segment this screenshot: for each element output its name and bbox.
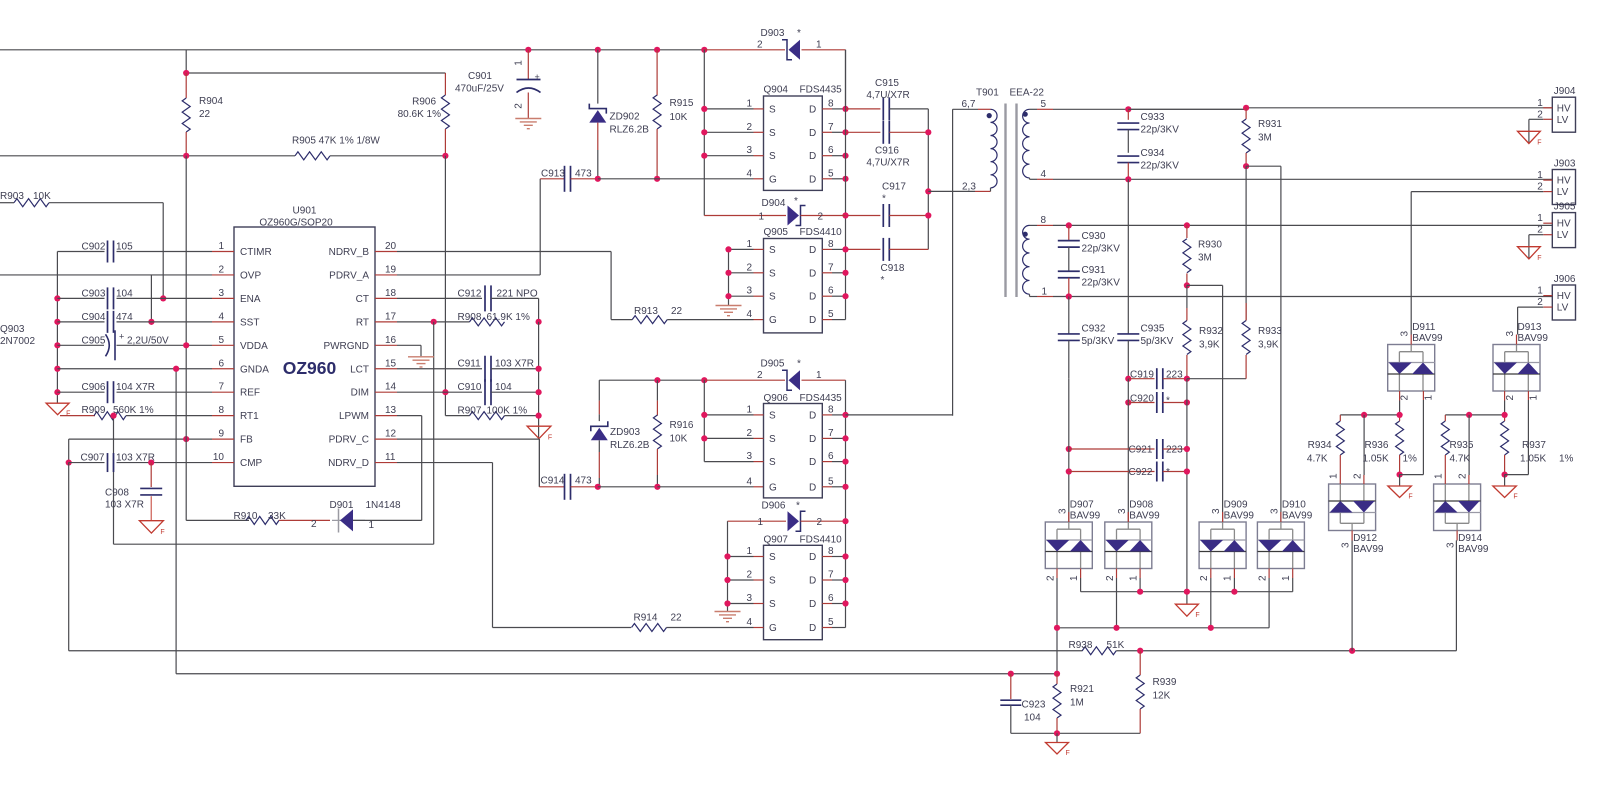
diode D903 (704, 49, 785, 51)
svg-text:10K: 10K (33, 191, 51, 202)
wire link to BAV pin2 (1363, 415, 1365, 475)
wire VDDA drop to DIM/R907 (444, 156, 446, 416)
svg-text:1: 1 (1423, 395, 1434, 401)
svg-text:+: + (535, 72, 540, 82)
svg-text:S: S (769, 104, 776, 115)
diode D908 BAV99 (1105, 522, 1152, 569)
wire VCC bus Q906 (703, 380, 705, 461)
svg-text:R904: R904 (199, 96, 223, 107)
node R930 bottom (1184, 282, 1190, 288)
svg-text:BAV99: BAV99 (1224, 511, 1255, 522)
svg-text:51K: 51K (1107, 640, 1125, 651)
wire switch-node bus B (845, 380, 847, 627)
capacitor C912 (484, 285, 486, 311)
svg-text:D912: D912 (1353, 533, 1377, 544)
ground F J904 (1518, 131, 1541, 143)
wire J903 LV link (1411, 191, 1543, 193)
node D909-2 (1208, 625, 1214, 631)
svg-text:D905: D905 (761, 359, 785, 370)
svg-text:BAV99: BAV99 (1518, 333, 1549, 344)
capacitor C920 (1128, 402, 1154, 404)
U901 pin 7 REF (212, 391, 234, 393)
svg-text:D911: D911 (1412, 322, 1436, 333)
node R915 bottom (654, 176, 660, 182)
svg-text:NDRV_B: NDRV_B (329, 247, 370, 258)
node C921 right (1184, 446, 1190, 452)
diode D906 (728, 520, 787, 522)
svg-text:2: 2 (818, 212, 824, 223)
wire primary feed (952, 109, 954, 415)
svg-text:ZD903: ZD903 (610, 427, 640, 438)
svg-text:33K: 33K (268, 511, 286, 522)
D909 pin 2 stub (1210, 569, 1212, 579)
svg-text:R908: R908 (458, 312, 482, 323)
svg-text:C911: C911 (458, 359, 482, 370)
svg-text:R909: R909 (82, 405, 106, 416)
svg-text:4: 4 (746, 476, 752, 487)
diode D904 (704, 215, 786, 217)
svg-text:R907: R907 (458, 406, 482, 417)
wire OVP to SST link (150, 275, 152, 322)
svg-text:C923: C923 (1022, 700, 1046, 711)
capacitor C921 (1069, 448, 1155, 450)
svg-text:D: D (809, 599, 816, 610)
svg-text:2: 2 (1199, 575, 1210, 581)
svg-text:16: 16 (385, 335, 397, 346)
svg-text:1: 1 (746, 546, 752, 557)
svg-text:G: G (769, 315, 777, 326)
capacitor C906 (57, 391, 104, 393)
svg-text:GNDA: GNDA (240, 364, 269, 375)
svg-text:G: G (769, 482, 777, 493)
U901 pin 20 NDRV_B (375, 251, 397, 253)
svg-text:5p/3KV: 5p/3KV (1141, 336, 1174, 347)
transistor Q907 FDS4410 box (764, 545, 823, 639)
wire switch node to primary (846, 414, 953, 416)
svg-text:7: 7 (828, 428, 834, 439)
svg-text:C930: C930 (1082, 231, 1106, 242)
svg-text:C912: C912 (458, 288, 482, 299)
node C901 tap (525, 47, 531, 53)
svg-text:4: 4 (218, 311, 224, 322)
wire PDRV_C net (397, 438, 539, 440)
connector J905 box (1552, 213, 1575, 248)
svg-text:J905: J905 (1554, 202, 1576, 213)
node R908/bus (536, 319, 542, 325)
svg-text:D: D (809, 174, 816, 185)
svg-text:F: F (1195, 612, 1199, 619)
svg-text:2: 2 (746, 428, 752, 439)
svg-text:F: F (160, 529, 164, 536)
diode D910 BAV99 (1257, 522, 1304, 569)
svg-text:R915: R915 (670, 98, 694, 109)
svg-text:4: 4 (1041, 169, 1047, 180)
U901 pin 5 VDDA (212, 344, 234, 346)
svg-text:1: 1 (1537, 98, 1543, 109)
diode D912 BAV99 (1329, 484, 1376, 531)
capacitor C917 (846, 215, 881, 217)
wire right sense bus down (1186, 379, 1188, 605)
node C934 bottom (1125, 176, 1131, 182)
Q907 pin 6 (822, 603, 832, 605)
svg-text:D: D (809, 128, 816, 139)
D907 pin 1 stub (1080, 569, 1082, 579)
ground F sense (1175, 604, 1198, 616)
svg-text:11: 11 (385, 452, 396, 463)
svg-text:2: 2 (1045, 575, 1056, 581)
svg-text:5: 5 (828, 476, 834, 487)
svg-text:223: 223 (1166, 370, 1183, 381)
wire R914 row / NDRV_D (493, 627, 632, 629)
svg-text:LPWM: LPWM (339, 411, 369, 422)
node R939 top (1137, 648, 1143, 654)
node REF/C906 (54, 389, 60, 395)
wire J905 LV to ground (1529, 234, 1543, 236)
svg-text:10K: 10K (670, 112, 688, 123)
svg-text:1: 1 (1042, 287, 1048, 298)
wire BAV pin1 return (1527, 391, 1529, 400)
J906 pin 1 HV (1543, 295, 1552, 297)
svg-text:10: 10 (213, 452, 225, 463)
svg-text:104: 104 (495, 382, 512, 393)
node D909-1 (1231, 589, 1237, 595)
wire R910 row (186, 519, 249, 521)
svg-text:4.7K: 4.7K (1450, 454, 1471, 465)
svg-text:80.6K 1%: 80.6K 1% (398, 109, 441, 120)
svg-text:100K 1%: 100K 1% (487, 406, 528, 417)
D908 pin 1 stub (1139, 569, 1141, 579)
svg-text:2: 2 (746, 122, 752, 133)
svg-text:G: G (769, 623, 777, 634)
capacitor C935 (1117, 333, 1139, 335)
svg-text:1M: 1M (1070, 698, 1084, 709)
wire diode pin1 bus (1080, 578, 1082, 592)
node C922 left (1066, 468, 1072, 474)
svg-text:R914: R914 (634, 613, 658, 624)
svg-text:Q907: Q907 (764, 535, 789, 546)
U901 pin 15 LCT (375, 368, 397, 370)
svg-text:HV: HV (1557, 219, 1571, 230)
U901 pin 10 CMP (212, 462, 234, 464)
svg-text:470uF/25V: 470uF/25V (455, 84, 504, 95)
U901 pin 1 CTIMR (212, 251, 234, 253)
ground F R936 (1399, 475, 1401, 486)
node sense gnd (1184, 589, 1190, 595)
svg-text:D903: D903 (761, 28, 785, 39)
node RT1 tap (110, 413, 116, 419)
J903 pin 1 HV (1543, 179, 1552, 181)
svg-text:F: F (1537, 140, 1541, 147)
Q906 pin 1 (704, 414, 753, 416)
node D912 pin3 (1349, 648, 1355, 654)
Q907 pin 7 (822, 579, 832, 581)
svg-text:D914: D914 (1458, 533, 1482, 544)
svg-text:9: 9 (218, 429, 224, 440)
svg-text:S: S (769, 576, 776, 587)
svg-text:PDRV_A: PDRV_A (329, 270, 369, 281)
node C920 left (1125, 399, 1131, 405)
svg-text:R939: R939 (1153, 677, 1177, 688)
wire Q905 source bus (728, 249, 730, 305)
svg-text:EEA-22: EEA-22 (1010, 88, 1045, 99)
svg-text:R935: R935 (1450, 440, 1474, 451)
node D905 left (701, 377, 707, 383)
wire J904 LV to ground (1529, 118, 1543, 120)
svg-text:4,7U/X7R: 4,7U/X7R (866, 90, 909, 101)
transformer core (1004, 104, 1006, 298)
node R937 bottom (1502, 472, 1508, 478)
capacitor C911 (484, 356, 486, 382)
svg-text:D913: D913 (1518, 322, 1542, 333)
Q904 pin 6 (822, 155, 832, 157)
svg-text:D: D (809, 457, 816, 468)
node D908-1 (1137, 589, 1143, 595)
svg-text:D: D (809, 623, 816, 634)
svg-text:22: 22 (671, 613, 683, 624)
svg-text:5: 5 (218, 335, 224, 346)
svg-text:D: D (809, 482, 816, 493)
capacitor C907 (107, 453, 109, 472)
Q906 pin 5 (822, 486, 832, 488)
wire J906 LV link (1518, 306, 1544, 308)
svg-text:7: 7 (828, 570, 834, 581)
svg-text:2: 2 (514, 103, 525, 109)
svg-text:LV: LV (1557, 187, 1569, 198)
wire BAV pin2 stub (1504, 391, 1506, 401)
resistor R905 (295, 152, 330, 160)
wire C935 column (1127, 179, 1129, 334)
svg-text:22p/3KV: 22p/3KV (1082, 278, 1121, 289)
U901 pin 11 NDRV_D (375, 462, 397, 464)
Q907 pin 3 (728, 603, 754, 605)
svg-text:4: 4 (746, 309, 752, 320)
wire C919 row to R933 (1187, 378, 1246, 380)
ground F bottom (1056, 733, 1058, 742)
ground F C908 (139, 521, 163, 533)
Q904 pin 1 (704, 108, 753, 110)
Q906 pin 8 (822, 414, 832, 416)
svg-text:22: 22 (199, 109, 211, 120)
svg-text:S: S (769, 434, 776, 445)
svg-text:2: 2 (757, 370, 763, 381)
svg-text:ENA: ENA (240, 294, 261, 305)
svg-text:4,7U/X7R: 4,7U/X7R (866, 158, 909, 169)
svg-text:1: 1 (746, 239, 752, 250)
svg-text:1.05K: 1.05K (1363, 454, 1389, 465)
ground C901 (515, 118, 541, 120)
diode D914 BAV99 (1434, 484, 1481, 531)
svg-text:3: 3 (746, 593, 752, 604)
svg-text:C907: C907 (81, 453, 105, 464)
svg-text:1: 1 (1128, 575, 1139, 581)
Q904 pin 2 (704, 131, 753, 133)
svg-text:2: 2 (746, 262, 752, 273)
wire R931 to D910 link (1246, 165, 1281, 167)
svg-text:LCT: LCT (350, 364, 369, 375)
svg-text:R910: R910 (234, 511, 258, 522)
svg-text:LV: LV (1557, 230, 1569, 241)
svg-text:D: D (809, 151, 816, 162)
svg-text:Q905: Q905 (764, 227, 789, 238)
wire D912 pin3 column (1351, 541, 1353, 651)
resistor R921 (1056, 674, 1058, 684)
ground PWRGND (408, 356, 434, 358)
svg-text:C922: C922 (1129, 467, 1153, 478)
svg-text:HV: HV (1557, 103, 1571, 114)
svg-text:6: 6 (828, 145, 834, 156)
svg-text:F: F (1066, 750, 1070, 757)
svg-text:R937: R937 (1522, 440, 1546, 451)
wire VDDA rail (0, 155, 295, 157)
svg-text:BAV99: BAV99 (1412, 333, 1443, 344)
svg-text:D: D (809, 245, 816, 256)
J905 pin 1 HV (1543, 222, 1552, 224)
svg-text:CT: CT (356, 294, 369, 305)
wire R930 to D909 link (1187, 284, 1223, 286)
wire right bus (538, 322, 540, 426)
svg-text:3M: 3M (1258, 133, 1272, 144)
capacitor C916 (846, 131, 881, 133)
svg-text:103 X7R: 103 X7R (495, 359, 534, 370)
capacitor C910 (484, 379, 486, 405)
svg-text:104: 104 (116, 288, 133, 299)
J906 pin 2 LV (1543, 306, 1552, 308)
svg-text:C904: C904 (82, 312, 106, 323)
svg-text:J906: J906 (1554, 274, 1576, 285)
svg-text:S: S (769, 552, 776, 563)
svg-text:20: 20 (385, 241, 397, 252)
wire LPWM net (397, 415, 422, 417)
capacitor C908 (150, 463, 152, 487)
svg-text:BAV99: BAV99 (1282, 511, 1313, 522)
svg-text:R916: R916 (670, 420, 694, 431)
wire D907 column (1068, 379, 1070, 522)
resistor R939 (1139, 651, 1141, 675)
svg-text:8: 8 (828, 404, 834, 415)
svg-text:R906: R906 (412, 97, 436, 108)
svg-text:1: 1 (758, 517, 764, 528)
ground F right bus (527, 426, 551, 438)
svg-text:3: 3 (218, 288, 224, 299)
node VDDA tap (183, 342, 189, 348)
svg-text:U901: U901 (293, 206, 317, 217)
svg-text:C913: C913 (541, 169, 565, 180)
svg-text:R932: R932 (1199, 326, 1223, 337)
svg-text:CMP: CMP (240, 458, 263, 469)
Q907 pin 5 (822, 627, 832, 629)
Q905 pin 3 (729, 295, 754, 297)
wire C914 row (538, 439, 540, 487)
wire FB corner down (68, 439, 70, 462)
wire OVP net from edge (0, 274, 212, 276)
svg-text:104: 104 (1024, 713, 1041, 724)
wire RT1 link riser (433, 322, 435, 544)
node C910 row tap (442, 389, 448, 395)
svg-text:J903: J903 (1554, 159, 1576, 170)
J904 pin 1 HV (1543, 107, 1552, 109)
svg-text:2N7002: 2N7002 (0, 336, 35, 347)
svg-text:C906: C906 (82, 382, 106, 393)
svg-text:D908: D908 (1129, 500, 1153, 511)
U901 pin 14 DIM (375, 391, 397, 393)
svg-text:19: 19 (385, 264, 397, 275)
resistor R930 (1186, 225, 1188, 238)
svg-text:5: 5 (1041, 99, 1047, 110)
svg-text:D907: D907 (1070, 500, 1094, 511)
svg-text:R934: R934 (1308, 440, 1332, 451)
svg-text:F: F (548, 435, 552, 442)
svg-text:R905 47K 1% 1/8W: R905 47K 1% 1/8W (292, 136, 380, 147)
svg-text:R930: R930 (1198, 240, 1222, 251)
wire C932 column (1068, 297, 1070, 334)
svg-text:3: 3 (1269, 508, 1280, 514)
wire CMP row left (69, 462, 105, 464)
wire FB net (69, 438, 212, 440)
node R936 top (1397, 412, 1403, 418)
svg-text:D: D (809, 315, 816, 326)
svg-text:C935: C935 (1141, 324, 1165, 335)
wire PWRGND net (397, 344, 421, 346)
svg-text:OVP: OVP (240, 270, 261, 281)
svg-text:S: S (769, 245, 776, 256)
Q905 pin 5 (822, 319, 832, 321)
transformer secondary top winding (1023, 109, 1030, 178)
Q907 pin 2 (728, 579, 754, 581)
svg-text:SST: SST (240, 317, 259, 328)
svg-text:3: 3 (1341, 542, 1352, 548)
svg-text:1: 1 (369, 520, 375, 531)
node ZD902 bottom (595, 176, 601, 182)
wire GNDA row (57, 368, 212, 370)
wire BAV pin1 return (1422, 391, 1424, 400)
svg-text:C903: C903 (82, 288, 106, 299)
resistor R935 (1444, 415, 1446, 421)
capacitor C918 (846, 248, 881, 250)
resistor R936 (1399, 415, 1401, 421)
Q904 pin 3 (704, 155, 753, 157)
svg-text:FDS4410: FDS4410 (800, 535, 843, 546)
U901 pin 4 SST (212, 321, 234, 323)
svg-text:D904: D904 (762, 198, 786, 209)
capacitor C903 (57, 297, 104, 299)
svg-text:12K: 12K (1153, 691, 1171, 702)
resistor R910 (246, 516, 279, 524)
svg-text:R936: R936 (1365, 440, 1389, 451)
capacitor C933 (1127, 109, 1129, 120)
node ENA junction (160, 295, 166, 301)
svg-text:5: 5 (828, 617, 834, 628)
resistor R908 (470, 318, 505, 326)
svg-text:8: 8 (1041, 215, 1047, 226)
Q904 pin 5 (822, 178, 832, 180)
svg-text:+: + (119, 332, 124, 342)
resistor R903 (0, 202, 14, 204)
svg-text:RT1: RT1 (240, 411, 259, 422)
svg-text:C914: C914 (541, 476, 565, 487)
svg-text:FDS4435: FDS4435 (800, 85, 843, 96)
svg-text:1: 1 (759, 212, 765, 223)
svg-text:3: 3 (1400, 331, 1411, 337)
resistor R938 (1082, 647, 1116, 655)
svg-text:VDDA: VDDA (240, 341, 268, 352)
svg-text:HV: HV (1557, 291, 1571, 302)
svg-text:S: S (769, 599, 776, 610)
wire bottom rail A (68, 463, 70, 651)
svg-text:Q904: Q904 (764, 85, 789, 96)
svg-text:7: 7 (218, 382, 224, 393)
svg-text:BAV99: BAV99 (1458, 544, 1489, 555)
wire R903 to ENA (162, 203, 164, 299)
